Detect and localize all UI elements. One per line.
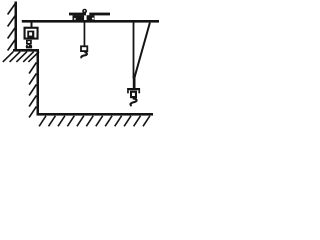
right hook curl xyxy=(130,98,136,106)
ceiling beam xyxy=(22,20,159,23)
left pulley block xyxy=(27,31,34,39)
right slanted rope xyxy=(134,23,150,79)
left mount stub xyxy=(31,23,33,28)
wall (upper left vertical support) xyxy=(15,2,18,52)
left hook curl (small weight) xyxy=(26,44,33,48)
floor xyxy=(37,113,154,116)
floor hatching xyxy=(39,116,150,127)
hanger bar right tick xyxy=(138,90,140,93)
shelf ledge xyxy=(13,49,39,52)
middle hook curl xyxy=(81,52,87,58)
pulley wheel on trolley xyxy=(82,9,87,14)
hanger bar left tick xyxy=(127,90,129,93)
step hatching xyxy=(29,63,36,118)
trolley plate left segment xyxy=(69,13,86,16)
right vertical rope xyxy=(133,23,135,79)
shelf hatching xyxy=(3,52,39,62)
left pulley frame xyxy=(25,28,38,39)
step edge xyxy=(37,49,40,116)
trolley right wheel xyxy=(87,15,95,20)
middle hook ring xyxy=(80,45,88,52)
apex joint xyxy=(133,76,136,80)
wall hatching xyxy=(8,3,16,51)
trolley left wheel xyxy=(73,15,85,20)
apex stub xyxy=(133,77,136,89)
left hook ring xyxy=(26,40,32,45)
right hook ring xyxy=(130,91,137,99)
trolley plate right segment xyxy=(89,13,110,16)
middle rope from trolley xyxy=(84,20,86,46)
hanger bar xyxy=(127,88,140,90)
